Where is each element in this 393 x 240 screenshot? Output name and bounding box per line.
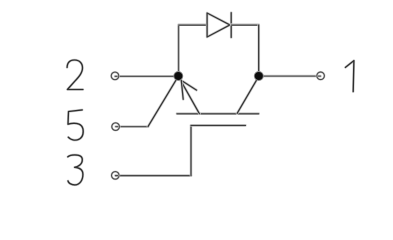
IGBT Q1 collector lead (237, 76, 259, 113)
diode D1 cathode bar (230, 13, 233, 38)
terminal circle pin 2 (111, 72, 119, 80)
wire pin3 horizontal (116, 174, 192, 177)
terminal circle pin 5 (112, 123, 120, 131)
IGBT Q1 channel bar (177, 112, 259, 115)
pin label 1 (345, 61, 354, 92)
diode D1 triangle (207, 13, 230, 37)
wire top rail left segment (179, 23, 207, 26)
pin label 2 (67, 60, 83, 90)
pin label 3 (68, 155, 83, 185)
junction node emitter side (174, 72, 183, 81)
IGBT Q1 gate bar (191, 124, 245, 127)
wire collector node to pin1 (259, 75, 321, 78)
IGBT Q1 emitter arrow barb lower (181, 80, 183, 99)
wire emitter node up to top rail (177, 25, 180, 76)
wire pin2 to emitter node (115, 75, 178, 78)
terminal circle pin 1 (317, 72, 325, 80)
wire pin5 diagonal to emitter node (148, 76, 178, 126)
junction node collector side (254, 72, 263, 81)
IGBT Q1 emitter lead (179, 77, 200, 114)
IGBT Q1 emitter arrow barb upper (181, 80, 196, 90)
pin label 5 (68, 110, 83, 140)
wire gate vertical (190, 125, 193, 175)
wire top rail right segment (231, 23, 259, 26)
terminal circle pin 3 (112, 172, 120, 180)
wire collector node up to top rail (257, 25, 260, 76)
wire pin5 horizontal (116, 125, 148, 128)
